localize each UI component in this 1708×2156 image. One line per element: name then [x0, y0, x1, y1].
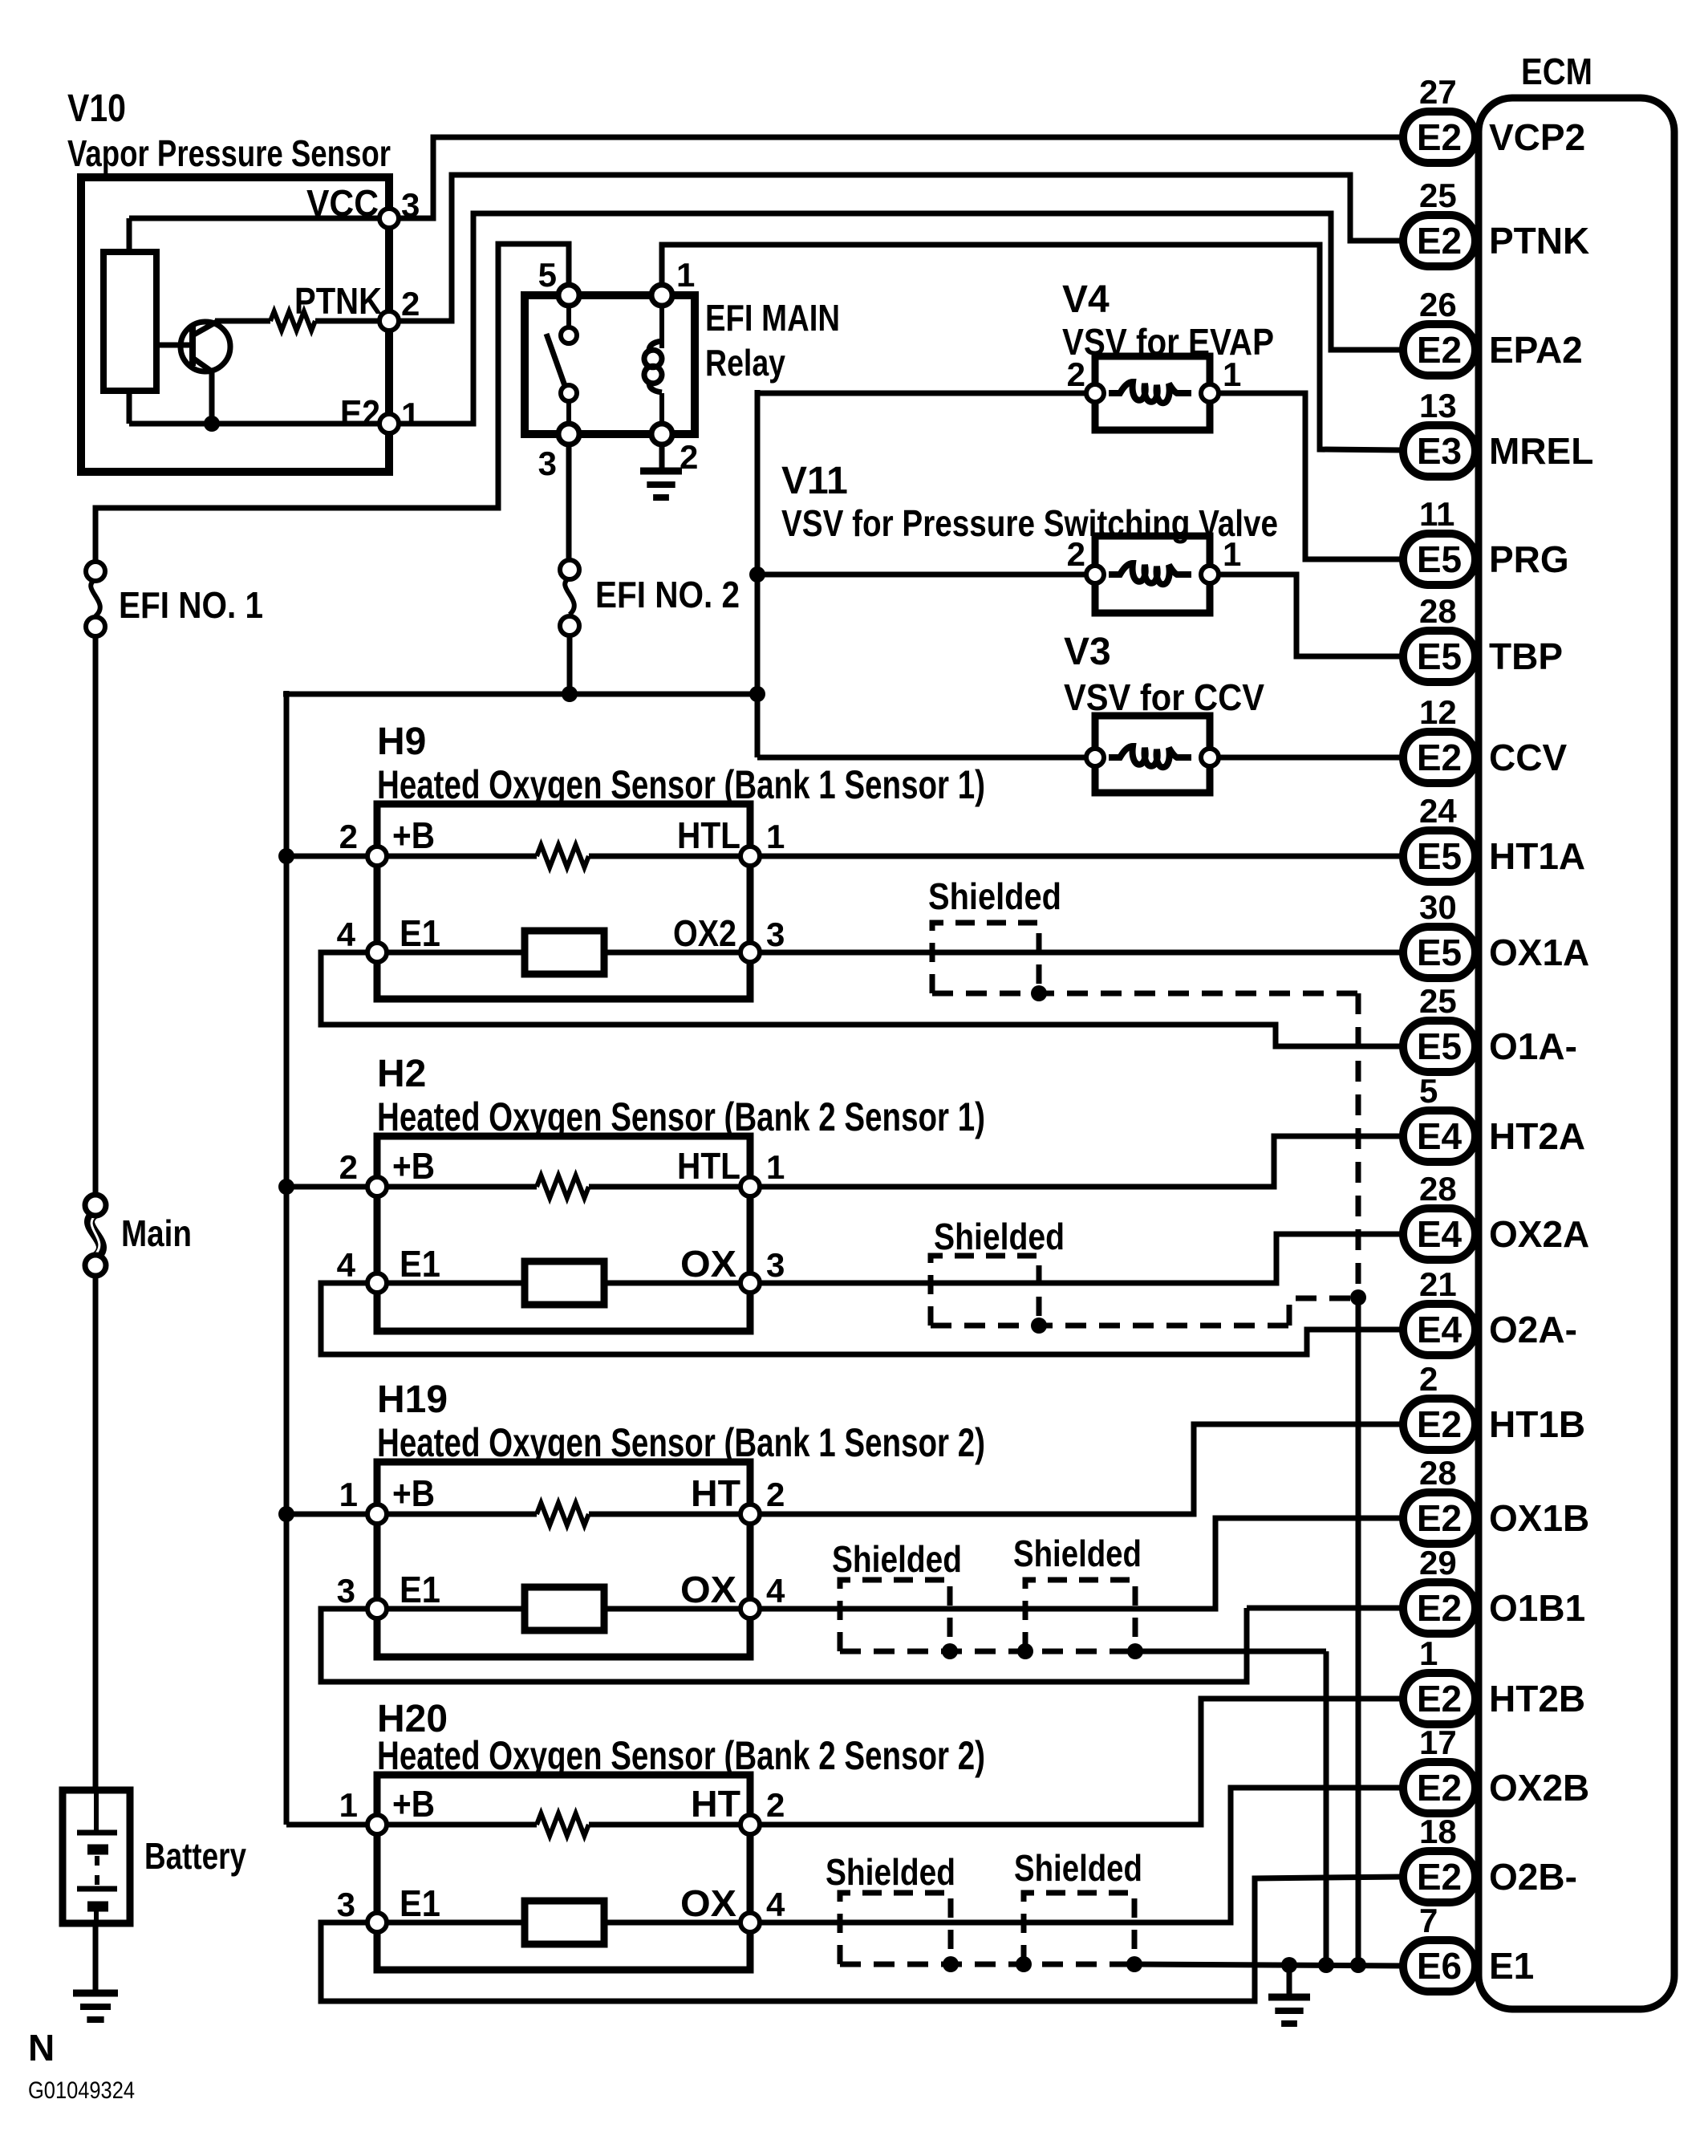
- H20 heater zigzag: [537, 1813, 589, 1836]
- node H20 shield junction 3: [1126, 1956, 1142, 1972]
- shield drain solid to E1 line: [1356, 1297, 1361, 1965]
- wire Main to battery: [93, 1276, 99, 1790]
- H19 shield box 1: [840, 1580, 950, 1651]
- wire H9 E1 to O1A-: [321, 952, 1403, 1046]
- wire battery to ground: [93, 1923, 99, 1993]
- wire H2 HTL to HT2A: [760, 1136, 1403, 1187]
- V4 pin 1 terminal: [1201, 384, 1219, 402]
- svg-text:E2: E2: [1417, 1856, 1462, 1898]
- svg-text:Main: Main: [121, 1212, 192, 1254]
- node H2 +B junction: [278, 1179, 294, 1195]
- transistor Q1 base bar: [189, 326, 196, 366]
- svg-text:E2: E2: [1417, 1403, 1462, 1445]
- H9 OX2 terminal: [740, 943, 760, 962]
- wire element top stub: [127, 218, 132, 254]
- pin 1 HT2B connector oval: [1403, 1673, 1475, 1724]
- V10 pin 3 terminal: [379, 209, 399, 228]
- pin 13 MREL connector oval: [1403, 425, 1475, 477]
- svg-text:11: 11: [1419, 495, 1454, 533]
- svg-text:24: 24: [1419, 792, 1457, 830]
- svg-text:18: 18: [1419, 1813, 1457, 1850]
- svg-text:13: 13: [1419, 387, 1457, 424]
- svg-text:1: 1: [1419, 1634, 1438, 1672]
- svg-text:E1: E1: [400, 1882, 440, 1924]
- node H20 shield junction 1: [943, 1956, 959, 1972]
- svg-text:+B: +B: [392, 814, 435, 856]
- svg-text:Shielded: Shielded: [1013, 1533, 1142, 1574]
- svg-text:E5: E5: [1417, 1025, 1462, 1067]
- svg-text:3: 3: [538, 445, 557, 482]
- svg-text:2: 2: [401, 285, 420, 323]
- H19 shield wire solid: [1135, 1649, 1326, 1655]
- H9 shield wire: [932, 991, 1358, 997]
- svg-text:1: 1: [766, 1148, 785, 1186]
- wire B+ to H20: [286, 1822, 367, 1828]
- relay coil L1 leads: [659, 295, 664, 348]
- svg-text:1: 1: [766, 818, 785, 855]
- H9 +B terminal: [367, 847, 387, 866]
- transistor Q1 emitter lead: [193, 358, 212, 372]
- H9 shield box: [932, 923, 1039, 993]
- svg-text:O2B-: O2B-: [1489, 1856, 1577, 1898]
- wire element bottom stub: [127, 389, 132, 424]
- node EFI NO.2 junction: [562, 686, 578, 702]
- svg-text:2: 2: [1067, 535, 1085, 573]
- H20 box: [377, 1775, 750, 1970]
- H9 element box: [525, 931, 604, 974]
- svg-text:E1: E1: [400, 1569, 440, 1610]
- H9 heater resistor: [387, 854, 537, 859]
- pin 21 O2A- connector oval: [1403, 1304, 1475, 1355]
- svg-text:H9: H9: [377, 721, 426, 763]
- svg-text:2: 2: [339, 818, 358, 855]
- V11 pin 1 terminal: [1201, 566, 1219, 583]
- pin 2 HT1B connector oval: [1403, 1399, 1475, 1450]
- svg-text:E2: E2: [1417, 1678, 1462, 1720]
- transistor Q1 base lead: [156, 343, 191, 348]
- relay pin 3 terminal: [558, 424, 579, 445]
- V3 pin 2 terminal: [1086, 749, 1104, 766]
- relay pin 1 terminal: [651, 285, 672, 306]
- svg-text:V11: V11: [781, 460, 848, 502]
- H9 shield drain dashed: [1356, 993, 1361, 1297]
- V3 pin 1 terminal: [1201, 749, 1219, 766]
- svg-text:HTL: HTL: [677, 814, 740, 856]
- V10 internal wire E2 bottom: [129, 421, 383, 427]
- wire O1B1 feed: [1247, 1606, 1403, 1611]
- pin 5 HT2A connector oval: [1403, 1110, 1475, 1162]
- wire rail to V11: [757, 572, 1088, 578]
- battery box: [63, 1790, 130, 1923]
- wire H20 HT to HT2B: [760, 1699, 1403, 1825]
- wire relay pin5 to EFI NO.1: [95, 244, 569, 562]
- svg-text:Shielded: Shielded: [928, 875, 1061, 917]
- H20 +B terminal: [367, 1815, 387, 1834]
- svg-text:EPA2: EPA2: [1489, 329, 1583, 371]
- svg-text:3: 3: [766, 1246, 785, 1284]
- V11 coil: [1109, 563, 1191, 584]
- svg-text:5: 5: [538, 256, 557, 294]
- V4 pin 2 terminal: [1086, 384, 1104, 402]
- H20 shield box 1: [840, 1893, 951, 1964]
- battery plate long 2: [77, 1886, 117, 1892]
- svg-text:OX2A: OX2A: [1489, 1213, 1589, 1255]
- wire rail to V4: [757, 391, 1088, 396]
- svg-text:+B: +B: [392, 1783, 435, 1825]
- V4 box: [1095, 356, 1210, 430]
- svg-text:+B: +B: [392, 1145, 435, 1187]
- svg-text:HT2A: HT2A: [1489, 1115, 1585, 1157]
- wire EFI NO.2 to main rail: [567, 635, 573, 694]
- pin 24 HT1A connector oval: [1403, 830, 1475, 882]
- svg-text:E2: E2: [1417, 1497, 1462, 1539]
- wire B+ to H2: [286, 1184, 367, 1190]
- svg-text:E2: E2: [1417, 116, 1462, 158]
- H2 signal wire: [387, 1281, 740, 1286]
- svg-text:2: 2: [1419, 1360, 1438, 1398]
- fuse EFI NO.1 squiggle: [91, 579, 100, 616]
- H19 box: [377, 1462, 750, 1657]
- pin 30 OX1A connector oval: [1403, 927, 1475, 978]
- ECM box: [1479, 98, 1674, 2009]
- ground relay: [640, 468, 682, 475]
- svg-text:OX: OX: [680, 1882, 736, 1924]
- H2 element box: [525, 1261, 604, 1305]
- svg-text:Shielded: Shielded: [832, 1538, 962, 1580]
- svg-text:MREL: MREL: [1489, 430, 1593, 472]
- battery dashed core: [95, 1856, 99, 1886]
- svg-text:+B: +B: [392, 1472, 435, 1514]
- svg-text:E2: E2: [1417, 737, 1462, 778]
- wire H9 OX2 to OX1A: [760, 950, 1403, 956]
- node shield drain junction: [1350, 1289, 1366, 1305]
- resistor R1: [270, 311, 315, 331]
- H19 shield wire dashed: [840, 1649, 1135, 1655]
- svg-text:25: 25: [1419, 177, 1457, 214]
- svg-text:3: 3: [337, 1572, 355, 1610]
- wire rail to V3: [757, 755, 1088, 761]
- svg-text:4: 4: [766, 1572, 785, 1610]
- svg-text:27: 27: [1419, 73, 1457, 111]
- node H20 shield junction 2: [1016, 1956, 1032, 1972]
- svg-text:Relay: Relay: [705, 342, 785, 384]
- H9 heater zigzag: [537, 845, 589, 867]
- battery plate short 2: [87, 1902, 108, 1912]
- svg-text:E2: E2: [1417, 220, 1462, 262]
- H19 shield drain: [1324, 1651, 1329, 1965]
- svg-text:2: 2: [1067, 355, 1085, 393]
- H2 heater resistor: [387, 1184, 537, 1190]
- H19 shield box 2: [1025, 1580, 1135, 1651]
- battery top stub: [94, 1790, 99, 1833]
- H2 OX terminal: [740, 1273, 760, 1293]
- relay switch stub bottom: [566, 400, 571, 434]
- svg-text:1: 1: [339, 1476, 358, 1513]
- wire V4 to PRG: [1219, 393, 1403, 559]
- wire E1 line: [1134, 1964, 1403, 1966]
- svg-text:ECM: ECM: [1521, 51, 1592, 92]
- wire H20 OX to OX2B: [760, 1788, 1403, 1923]
- svg-text:O2A-: O2A-: [1489, 1309, 1577, 1350]
- H2 shield box: [931, 1256, 1039, 1326]
- node H9 shield junction: [1031, 985, 1047, 1001]
- pin 28 TBP connector oval: [1403, 631, 1475, 682]
- svg-text:HTL: HTL: [677, 1145, 740, 1187]
- relay switch stub top: [566, 295, 571, 328]
- Main link top terminal: [85, 1195, 106, 1216]
- svg-text:Vapor Pressure Sensor: Vapor Pressure Sensor: [67, 132, 391, 174]
- wire relay pin2 to ground: [659, 445, 665, 469]
- svg-text:17: 17: [1419, 1724, 1457, 1761]
- H2 HTL terminal: [740, 1177, 760, 1196]
- H9 E1 terminal: [367, 943, 387, 962]
- H9 signal wire: [387, 950, 740, 956]
- node H9 drain junction: [1350, 1957, 1366, 1973]
- pin 12 CCV connector oval: [1403, 732, 1475, 783]
- wire H20 E1 to O2B-: [321, 1877, 1403, 2001]
- svg-text:E2: E2: [1417, 329, 1462, 371]
- V10 pressure element: [103, 252, 156, 391]
- svg-text:EFI NO. 1: EFI NO. 1: [119, 584, 263, 626]
- H19 E1 terminal: [367, 1599, 387, 1618]
- H19 signal wire: [387, 1606, 740, 1612]
- pin 29 O1B1 connector oval: [1403, 1582, 1475, 1634]
- wire H19 OX to OX1B: [760, 1518, 1403, 1609]
- svg-text:E3: E3: [1417, 430, 1462, 472]
- svg-text:3: 3: [766, 916, 785, 953]
- svg-text:25: 25: [1419, 982, 1457, 1020]
- svg-text:G01049324: G01049324: [28, 2077, 135, 2104]
- svg-text:E1: E1: [1489, 1945, 1534, 1987]
- pin 11 PRG connector oval: [1403, 534, 1475, 585]
- svg-text:Shielded: Shielded: [826, 1851, 955, 1893]
- svg-text:28: 28: [1419, 1170, 1457, 1208]
- svg-text:E5: E5: [1417, 835, 1462, 877]
- H20 element box: [525, 1901, 604, 1944]
- relay switch lower contact: [561, 385, 577, 401]
- wire E1 ground stub: [1287, 1965, 1292, 1996]
- H20 HT terminal: [740, 1815, 760, 1834]
- node H19 drain junction: [1318, 1957, 1334, 1973]
- H2 shield wire: [931, 1323, 1289, 1329]
- svg-text:O1A-: O1A-: [1489, 1025, 1577, 1067]
- relay switch blade: [546, 334, 567, 392]
- svg-text:H19: H19: [377, 1378, 448, 1421]
- svg-text:PTNK: PTNK: [1489, 220, 1589, 262]
- svg-text:EFI MAIN: EFI MAIN: [705, 297, 840, 339]
- svg-text:VCP2: VCP2: [1489, 116, 1585, 158]
- pin 7 E1 connector oval: [1403, 1940, 1475, 1992]
- battery bottom stub: [94, 1906, 99, 1923]
- svg-text:12: 12: [1419, 693, 1457, 731]
- H20 E1 terminal: [367, 1913, 387, 1932]
- svg-text:28: 28: [1419, 592, 1457, 630]
- svg-text:E6: E6: [1417, 1945, 1462, 1987]
- svg-text:29: 29: [1419, 1544, 1457, 1581]
- svg-text:H2: H2: [377, 1053, 426, 1095]
- svg-text:4: 4: [766, 1886, 785, 1923]
- Main link bottom terminal: [85, 1255, 106, 1276]
- H2 heater zigzag: [537, 1175, 589, 1198]
- wire H2 E1 to O2A-: [321, 1283, 1403, 1354]
- pin 27 VCP2 connector oval: [1403, 112, 1475, 163]
- svg-text:E4: E4: [1417, 1115, 1463, 1157]
- svg-text:26: 26: [1419, 286, 1457, 323]
- svg-text:30: 30: [1419, 888, 1457, 926]
- wire V11 to TBP: [1219, 575, 1403, 656]
- H19 +B terminal: [367, 1504, 387, 1524]
- svg-text:E2: E2: [1417, 1587, 1462, 1629]
- svg-text:OX1A: OX1A: [1489, 932, 1589, 973]
- H20 OX terminal: [740, 1913, 760, 1932]
- relay pin 5 terminal: [558, 285, 579, 306]
- H19 heater zigzag: [537, 1503, 589, 1525]
- svg-text:7: 7: [1419, 1902, 1438, 1939]
- svg-text:2: 2: [766, 1786, 785, 1824]
- svg-text:N: N: [28, 2027, 55, 2069]
- svg-text:O1B1: O1B1: [1489, 1587, 1585, 1629]
- V3 box: [1095, 716, 1210, 793]
- VSV rail vertical: [755, 390, 761, 757]
- node H2 shield junction: [1031, 1318, 1047, 1334]
- wire H9 HTL to HT1A: [760, 854, 1403, 859]
- sensor B+ rail vertical: [284, 691, 290, 1825]
- svg-text:VSV for CCV: VSV for CCV: [1064, 676, 1264, 718]
- svg-text:2: 2: [766, 1476, 785, 1513]
- relay pin 2 terminal: [651, 424, 672, 445]
- wire H19 HT to HT1B: [760, 1424, 1403, 1514]
- svg-text:1: 1: [401, 396, 420, 433]
- svg-text:V10: V10: [67, 87, 126, 130]
- wire B+ to H9: [286, 854, 367, 859]
- V10 internal wire VCC top: [129, 216, 383, 221]
- wire H19 E1 up: [321, 1608, 1247, 1682]
- wire VCC to VCP2: [399, 137, 1403, 218]
- EFI MAIN relay box: [525, 295, 695, 434]
- ground battery: [73, 1990, 118, 1997]
- ground E1: [1268, 1994, 1310, 2001]
- svg-text:4: 4: [337, 916, 356, 953]
- wire H2 OX to OX2A: [760, 1234, 1403, 1283]
- svg-text:Battery: Battery: [144, 1835, 246, 1877]
- H9 box: [377, 804, 750, 999]
- main B+ rail horizontal: [283, 692, 757, 697]
- svg-text:HT1A: HT1A: [1489, 835, 1585, 877]
- wire relay pin1 to MREL: [662, 245, 1403, 450]
- svg-text:5: 5: [1419, 1072, 1438, 1110]
- svg-text:HT2B: HT2B: [1489, 1678, 1585, 1720]
- node H19 +B junction: [278, 1506, 294, 1522]
- svg-text:OX: OX: [680, 1569, 736, 1610]
- svg-text:1: 1: [339, 1786, 358, 1824]
- node H19 shield junction 1: [942, 1643, 958, 1659]
- H19 element box: [525, 1587, 604, 1630]
- wire resistor to PTNK: [315, 319, 383, 324]
- svg-text:OX: OX: [680, 1243, 736, 1285]
- H19 HT terminal: [740, 1504, 760, 1524]
- svg-text:E4: E4: [1417, 1309, 1463, 1350]
- svg-text:Shielded: Shielded: [934, 1216, 1065, 1257]
- svg-text:E5: E5: [1417, 635, 1462, 677]
- node E1 ground junction: [1281, 1957, 1297, 1973]
- svg-text:1: 1: [1223, 355, 1241, 393]
- H2 +B terminal: [367, 1177, 387, 1196]
- svg-text:PRG: PRG: [1489, 538, 1569, 580]
- svg-text:2: 2: [680, 438, 698, 476]
- pin 26 EPA2 connector oval: [1403, 324, 1475, 376]
- wire B+ to H19: [286, 1512, 367, 1517]
- H20 shield wire dashed: [840, 1962, 1134, 1967]
- Main fusible link: [89, 1213, 101, 1257]
- H19 OX terminal: [740, 1599, 760, 1618]
- battery plate long 1: [77, 1830, 117, 1836]
- svg-text:3: 3: [337, 1886, 355, 1923]
- svg-text:OX2: OX2: [673, 912, 736, 954]
- node H9 +B junction: [278, 848, 294, 864]
- V10 sensor box: [81, 177, 389, 472]
- svg-text:E2: E2: [340, 392, 380, 434]
- wire E2 to EPA2 pin: [399, 213, 1403, 424]
- H20 heater resistor: [387, 1822, 537, 1828]
- svg-text:V3: V3: [1064, 631, 1111, 673]
- node emitter junction: [204, 416, 220, 432]
- svg-text:VCC: VCC: [306, 182, 379, 224]
- fuse EFI NO.2 squiggle: [565, 578, 574, 615]
- svg-text:4: 4: [337, 1246, 356, 1284]
- node H19 shield junction 3: [1127, 1643, 1143, 1659]
- svg-text:HT: HT: [691, 1783, 740, 1825]
- H20 signal wire: [387, 1920, 740, 1926]
- svg-text:E4: E4: [1417, 1213, 1463, 1255]
- pin 25 PTNK connector oval: [1403, 215, 1475, 266]
- relay coil L1: [644, 341, 662, 392]
- node VSV rail junction: [749, 686, 765, 702]
- wire EFI NO.1 to Main link: [93, 636, 99, 1197]
- svg-text:28: 28: [1419, 1454, 1457, 1492]
- relay switch upper contact: [561, 327, 577, 343]
- svg-text:HT1B: HT1B: [1489, 1403, 1585, 1445]
- battery plate short 1: [87, 1845, 108, 1855]
- pin 18 O2B- connector oval: [1403, 1851, 1475, 1902]
- svg-text:Shielded: Shielded: [1014, 1847, 1142, 1889]
- svg-text:HT: HT: [691, 1472, 740, 1514]
- svg-text:CCV: CCV: [1489, 737, 1567, 778]
- fuse EFI NO.1 bottom terminal: [86, 617, 105, 636]
- node H19 shield junction 2: [1017, 1643, 1033, 1659]
- H2 shield jog: [1289, 1298, 1358, 1326]
- pin 17 OX2B connector oval: [1403, 1762, 1475, 1813]
- svg-text:1: 1: [1223, 535, 1241, 573]
- H20 shield box 2: [1024, 1893, 1134, 1964]
- svg-text:PTNK: PTNK: [294, 280, 382, 322]
- svg-text:EFI NO. 2: EFI NO. 2: [595, 574, 740, 615]
- svg-text:E1: E1: [400, 1243, 440, 1285]
- svg-text:E2: E2: [1417, 1767, 1462, 1809]
- V10 pin 1 terminal: [379, 414, 399, 433]
- wire V3 to CCV: [1219, 755, 1403, 761]
- svg-text:2: 2: [339, 1148, 358, 1186]
- fuse EFI NO.2 bottom terminal: [560, 616, 579, 635]
- wire relay pin3 to EFI NO.2: [566, 445, 572, 560]
- V11 box: [1095, 536, 1210, 613]
- V3 coil: [1109, 746, 1191, 767]
- pin 28 OX2A connector oval: [1403, 1208, 1475, 1260]
- svg-text:OX2B: OX2B: [1489, 1767, 1589, 1809]
- svg-text:OX1B: OX1B: [1489, 1497, 1589, 1539]
- node V11 rail junction: [749, 566, 765, 583]
- pin 25 O1A- connector oval: [1403, 1021, 1475, 1072]
- fuse EFI NO.2 top terminal: [560, 560, 579, 579]
